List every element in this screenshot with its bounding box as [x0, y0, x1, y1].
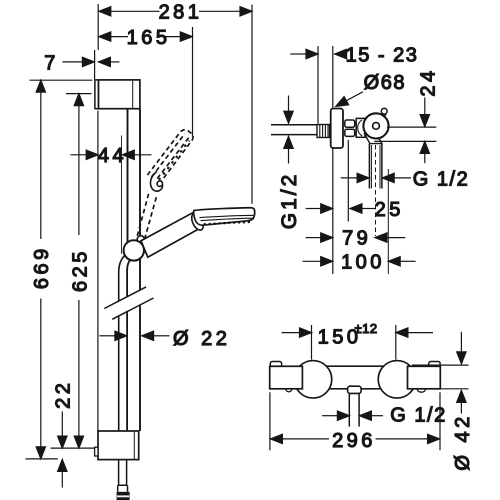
dimension 15-23 — [290, 44, 418, 66]
right check valve bump — [417, 389, 425, 392]
rail tube left edge — [127, 109, 129, 243]
dimension 669 — [25, 80, 92, 459]
bottom bracket shading line — [133, 432, 135, 459]
dimension 24 (vertical) — [374, 67, 439, 163]
right handle — [408, 366, 441, 389]
svg-text:Ø 22: Ø 22 — [173, 328, 230, 350]
extension line knob edge — [387, 169, 389, 274]
wire extension line wall-top — [97, 4, 99, 50]
hand shower handle — [141, 212, 200, 257]
hose end nut — [117, 492, 130, 500]
dimension 165 — [99, 27, 193, 137]
hook curl (phantom holder) — [150, 172, 162, 192]
hand shower head — [194, 208, 255, 225]
hose lower neck — [118, 460, 128, 492]
bottom bracket lever — [95, 447, 98, 456]
left handle — [270, 366, 303, 389]
dashed shower nozzle row — [159, 141, 189, 181]
hand shower cone joint — [189, 212, 205, 232]
dimension 22 (bottom left) — [53, 380, 75, 488]
dimension G1/2 (thermostat outlet) — [322, 404, 447, 426]
left handle tab — [270, 362, 281, 368]
dashed centerline outlet — [375, 145, 377, 236]
wall bracket top: housing — [99, 80, 140, 109]
union nut upper face — [345, 120, 355, 127]
right handle tab — [429, 362, 440, 368]
outlet pipe — [349, 393, 359, 426]
right port circle — [378, 361, 416, 399]
ribbed connector — [317, 125, 330, 138]
svg-text:44: 44 — [98, 145, 127, 167]
bottom wall bracket — [98, 431, 139, 460]
dimension G1/2 right — [341, 168, 469, 190]
dimension 296 — [270, 392, 440, 452]
dashed hand shower (phantom position) — [136, 130, 193, 243]
svg-text:25: 25 — [375, 199, 404, 221]
outlet stub tube — [369, 144, 382, 189]
rail tube right edge — [139, 109, 141, 431]
dimension 7 — [44, 52, 119, 74]
supply pipe — [271, 125, 317, 135]
extension line nut center — [347, 140, 349, 222]
svg-text:296: 296 — [332, 430, 376, 452]
svg-text:165: 165 — [127, 27, 171, 49]
dimension G1/2 left (vertical) — [278, 96, 301, 230]
escutcheon flange — [331, 109, 343, 149]
svg-text:Ø 42: Ø 42 — [452, 413, 474, 470]
svg-text:15 - 23: 15 - 23 — [346, 44, 419, 66]
body tube — [302, 366, 407, 389]
svg-text:22: 22 — [53, 380, 75, 409]
dimension 625 — [51, 94, 96, 449]
svg-text:281: 281 — [159, 1, 203, 23]
dimension Ø42 (vertical right) — [412, 332, 474, 471]
svg-text:Ø68: Ø68 — [364, 72, 406, 94]
extension line wall face — [317, 46, 319, 124]
dimension 44 — [70, 145, 151, 167]
svg-text:669: 669 — [31, 245, 53, 289]
nozzle dots — [204, 221, 251, 226]
svg-text:±12: ±12 — [355, 321, 378, 336]
dimension 150±12 — [282, 321, 433, 360]
left port circle — [294, 361, 332, 399]
dimension 281 — [99, 1, 252, 204]
left check valve bump — [286, 389, 292, 392]
dimension 100 — [303, 252, 416, 274]
label Ø68 with leader — [336, 72, 406, 106]
knob hub — [373, 123, 380, 130]
svg-text:G1/2: G1/2 — [278, 172, 301, 230]
wall bracket top: wall plate — [95, 80, 99, 109]
valve block — [356, 118, 365, 137]
union nut lower face — [345, 129, 355, 136]
knob — [363, 113, 388, 138]
outlet tab — [348, 386, 362, 393]
svg-text:G 1/2: G 1/2 — [390, 404, 446, 426]
head chamfer line — [200, 215, 254, 217]
slider pivot knob — [124, 240, 144, 260]
svg-text:G 1/2: G 1/2 — [413, 168, 469, 190]
wire extension line wall-plate-front — [94, 50, 96, 80]
rail axis thin line — [121, 136, 123, 255]
svg-text:625: 625 — [69, 248, 91, 292]
dimension 79 — [306, 227, 406, 249]
head face line — [201, 218, 254, 220]
dimension 25 — [306, 199, 404, 221]
svg-text:79: 79 — [342, 227, 371, 249]
extension line flange face — [332, 46, 334, 274]
wall bracket top: shading line — [132, 81, 134, 108]
hose left edge — [119, 256, 125, 431]
lever nub — [380, 108, 387, 117]
svg-text:100: 100 — [341, 252, 385, 274]
outlet bracket under knob — [364, 133, 382, 144]
wire wall line below bracket — [97, 111, 99, 431]
hose right edge — [127, 260, 130, 431]
svg-text:24: 24 — [418, 67, 440, 96]
dimension Ø22 (rail diameter) — [99, 328, 230, 350]
slider pivot nub — [137, 236, 144, 243]
svg-text:7: 7 — [44, 52, 59, 74]
break symbol — [104, 287, 153, 319]
